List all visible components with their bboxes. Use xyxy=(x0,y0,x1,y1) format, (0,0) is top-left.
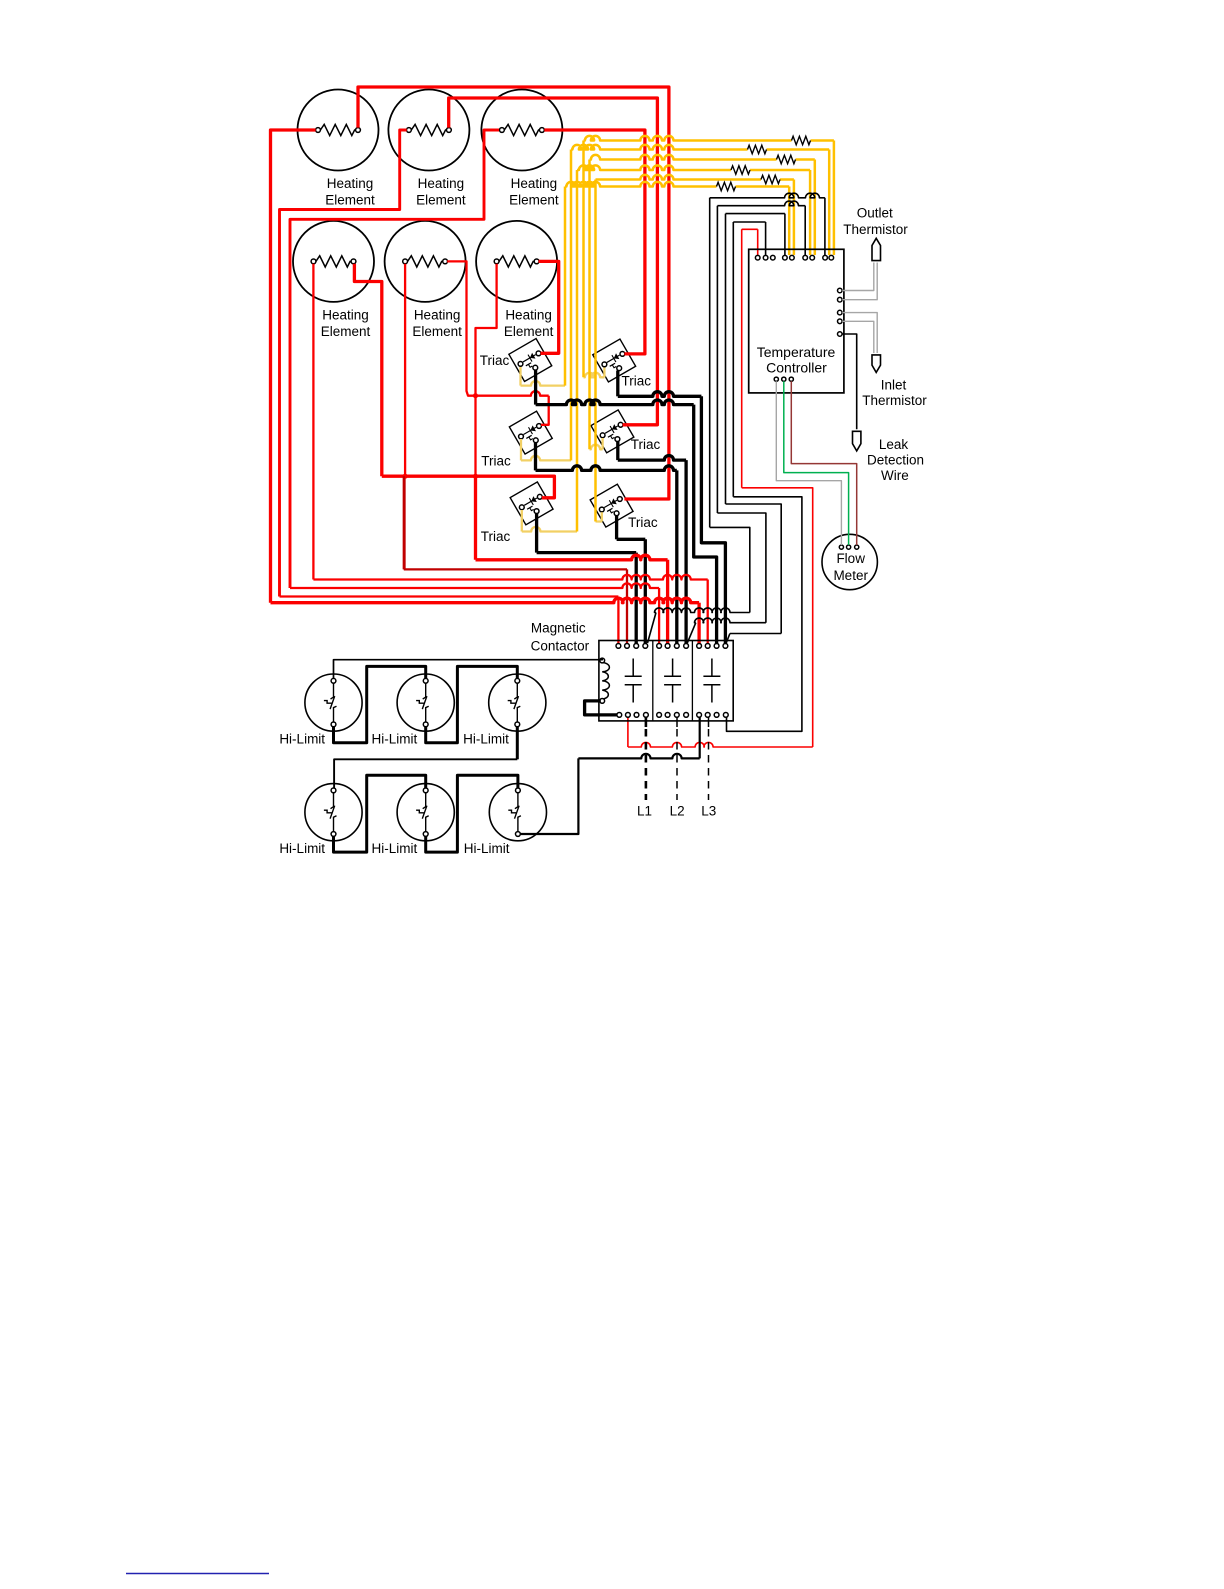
svg-text:Temperature: Temperature xyxy=(757,344,836,360)
svg-text:Element: Element xyxy=(504,324,554,339)
flow meter xyxy=(822,534,877,589)
svg-text:Meter: Meter xyxy=(833,568,868,583)
label Temperature Controller xyxy=(757,344,836,375)
yellow riser T1 gate xyxy=(519,367,521,386)
wire junction x=475.5 y=395.7 right to x=548.7 down to triac T3 main xyxy=(476,391,549,396)
footer rule xyxy=(126,1573,269,1575)
svg-text:Inlet: Inlet xyxy=(881,377,907,392)
contactor bottom terminals xyxy=(617,713,622,718)
contactor coil xyxy=(602,663,609,700)
yellow riser T6 gate xyxy=(601,512,603,521)
yellow bus B: riser x=571.0 to controller drop x=829.2 xyxy=(571,145,748,150)
svg-text:L1: L1 xyxy=(637,804,652,819)
svg-text:L2: L2 xyxy=(670,804,685,819)
wire HE5 right terminal right-down to junction x=475.5 y=395.7 xyxy=(447,261,475,395)
black wire triac T1 MT1 down-right to x=693.7 down to y=559.7 right to contactor terminal 11 xyxy=(534,370,537,405)
black wire triac T3 MT1 down-right to contactor terminal 7 xyxy=(534,443,537,471)
svg-text:Thermistor: Thermistor xyxy=(862,393,927,408)
heating element HE3 xyxy=(481,90,562,171)
dashed line L2 xyxy=(676,718,678,728)
svg-text:Hi-Limit: Hi-Limit xyxy=(279,731,325,746)
junction node feeder/HE6 xyxy=(473,474,478,479)
svg-text:Heating: Heating xyxy=(327,176,374,191)
sense wire controller t6: H2 y=205.7 elbow x=717.4 down, right to y=622.7 jog to contactor t8 xyxy=(717,201,805,206)
resistor on yellow bus B xyxy=(748,145,767,153)
label Leak Detection Wire xyxy=(867,437,924,483)
controller top terminals xyxy=(755,255,760,260)
resistor on yellow bus E xyxy=(761,175,780,183)
sense wire controller t8: H1 y=197.8 left elbow x=709.7 down, right to y=612.5 jog to contactor t4 xyxy=(710,193,825,198)
svg-text:Element: Element xyxy=(412,324,462,339)
svg-text:Wire: Wire xyxy=(881,468,909,483)
sense wire controller t2: H4 y=222 elbow x=733.3 down, right down to contactor bottom terminal 12 xyxy=(733,221,765,223)
hi-limit switch HL1 xyxy=(305,674,362,731)
svg-text:Triac: Triac xyxy=(622,374,652,389)
svg-text:Hi-Limit: Hi-Limit xyxy=(372,731,418,746)
triac T3 xyxy=(509,411,552,454)
magnetic contactor box xyxy=(599,641,733,721)
yellow riser T5 gate xyxy=(521,510,523,532)
junction node x=475.5 y=395.7 xyxy=(473,393,478,398)
heating element HE5 xyxy=(385,221,466,302)
wire HL5 bottom to HL6 top jumper xyxy=(426,775,518,852)
yellow bus D: riser x=577.0 to controller drop x=810.1 xyxy=(577,165,731,170)
leak detection wire symbol xyxy=(853,431,861,451)
svg-text:Hi-Limit: Hi-Limit xyxy=(464,841,510,856)
wire controller terminal to leak detection wire xyxy=(842,334,857,429)
wire HE2 left terminal left-down-left to x=279.5 down to red bus D xyxy=(280,130,407,597)
heating element HE2 xyxy=(388,90,469,171)
svg-text:Element: Element xyxy=(325,192,375,207)
hi-limit switch HL6 xyxy=(489,784,546,841)
red bus D y=596.5 from x=279.5 to contactor terminal 1 xyxy=(280,595,619,597)
resistor on yellow bus D xyxy=(731,166,750,174)
svg-text:Hi-Limit: Hi-Limit xyxy=(279,841,325,856)
yellow bus C: riser x=589.5 to controller drop x=814.8 xyxy=(590,155,777,160)
label Flow Meter xyxy=(833,551,868,583)
wire HL3 bottom down-left to HL4 top xyxy=(516,727,519,760)
yellow bus D drop to controller xyxy=(809,170,812,255)
svg-text:Heating: Heating xyxy=(414,308,461,323)
junction node feeder/HE5 xyxy=(403,474,408,479)
wire HE1 left terminal to x=270.5 down to red bus E xyxy=(271,130,316,603)
red bus C y=588 from x=290 to contactor terminal 5 xyxy=(290,583,659,588)
svg-text:Triac: Triac xyxy=(480,353,510,368)
triac T4 xyxy=(591,410,634,453)
yellow bus A drop to controller xyxy=(833,141,836,256)
svg-text:Detection: Detection xyxy=(867,452,924,467)
svg-text:Triac: Triac xyxy=(481,454,511,469)
label HE5 Heating Element xyxy=(412,308,462,339)
wire HE6 right terminal right to x=558.7 down to triac T1 main xyxy=(539,261,559,353)
temperature controller box xyxy=(749,249,844,393)
label HE1 Heating Element xyxy=(325,176,375,207)
svg-text:Hi-Limit: Hi-Limit xyxy=(372,841,418,856)
contactor main contacts xyxy=(625,659,642,703)
wire HE5 left terminal down to junction on feeder xyxy=(404,264,406,476)
resistor on yellow bus A xyxy=(792,136,811,144)
triac T1 xyxy=(509,339,552,382)
wire HL2 bottom to HL3 top jumper xyxy=(426,666,518,742)
svg-text:Heating: Heating xyxy=(322,308,369,323)
wire controller to flow meter gray xyxy=(776,381,841,545)
svg-text:Flow: Flow xyxy=(836,551,865,566)
red bus E y=602.7 from x=270.5 to contactor terminal 9 xyxy=(271,598,700,603)
wire controller to flow meter dark red xyxy=(791,381,856,545)
svg-text:Triac: Triac xyxy=(628,515,658,530)
heating element HE6 xyxy=(476,221,557,302)
wire HE6 left terminal down-left-down to junction x=475.5 xyxy=(476,264,497,476)
svg-text:Controller: Controller xyxy=(766,360,827,376)
controller right terminals xyxy=(838,288,843,293)
wire HL6 bottom right-up to contactor bottom terminal 9 xyxy=(520,758,578,834)
dark red bus B y=569.4 from x=403.8 to contactor terminal 2 xyxy=(403,476,405,569)
svg-text:Magnetic: Magnetic xyxy=(531,621,586,636)
wire HE2 right terminal up to y=98 to x=657.4 down to triac T4 main xyxy=(449,98,658,425)
label HE2 Heating Element xyxy=(416,176,466,207)
label HE4 Heating Element xyxy=(321,308,371,339)
wire HE4 left terminal down to red bus F xyxy=(312,264,314,580)
outlet thermistor symbol xyxy=(872,238,881,260)
dashed line L3 xyxy=(708,718,710,728)
black wire triac T6 MT1 down-right to contactor terminal 4 xyxy=(615,516,618,540)
red bus A y=559.8 from x=475.5 to contactor terminal 6 xyxy=(474,476,477,560)
svg-text:Element: Element xyxy=(509,192,559,207)
triac T2 xyxy=(593,339,636,382)
svg-text:Leak: Leak xyxy=(879,437,909,452)
hi-limit switch HL5 xyxy=(397,784,454,841)
hi-limit switch HL4 xyxy=(305,784,362,841)
wire HL4 bottom to HL5 top jumper xyxy=(334,775,426,852)
heating element HE4 xyxy=(293,221,374,302)
svg-text:Heating: Heating xyxy=(418,176,465,191)
yellow riser T4 gate xyxy=(601,438,603,449)
wire HE3 right terminal right y=130 to x=644.9 down to triac T2 main xyxy=(544,130,645,354)
svg-text:Hi-Limit: Hi-Limit xyxy=(463,731,509,746)
wire HE3 left terminal left-down-left to x=290 down to red bus C xyxy=(290,130,499,588)
black wire triac T4 MT1 down-right to contactor terminal 8 xyxy=(616,441,619,460)
label Inlet Thermistor xyxy=(862,377,927,408)
svg-text:Contactor: Contactor xyxy=(531,639,590,654)
black wire triac T2 MT1 down-right to x=701.4 down to y=542.8 right to contactor terminal 12 xyxy=(616,371,619,397)
resistor on yellow bus C xyxy=(777,155,796,163)
triac T5 xyxy=(510,482,553,525)
yellow bus F drop to controller xyxy=(788,187,791,256)
label Outlet Thermistor xyxy=(843,205,908,237)
wire controller to flow meter green xyxy=(784,381,849,545)
wire feeder y=476.2 from x=381.8 to x=554.4 down to triac T5 main xyxy=(382,476,555,498)
yellow bus E: riser x=595.5 to controller drop x=793.9 xyxy=(596,175,762,180)
yellow bus B drop to controller xyxy=(828,150,831,256)
svg-text:Heating: Heating xyxy=(505,308,552,323)
wire controller to inlet thermistor xyxy=(842,313,877,353)
yellow bus F: riser x=565.0 to controller drop x=789.2 xyxy=(565,182,717,187)
svg-text:Thermistor: Thermistor xyxy=(843,222,908,237)
sense wire controller t4: H3 y=213.6 elbow x=725.5 down, right to y=633.5 jog to contactor t12 xyxy=(726,213,785,215)
wire junction down to dark red bus B xyxy=(403,476,405,569)
resistor on yellow bus F xyxy=(717,182,736,190)
inlet thermistor symbol xyxy=(872,355,881,373)
label HE3 Heating Element xyxy=(509,176,559,207)
wire controller to outlet thermistor xyxy=(842,263,874,291)
yellow riser T3 gate xyxy=(520,439,522,460)
hi-limit switch HL2 xyxy=(397,674,454,731)
yellow riser T2 gate xyxy=(603,368,605,378)
red bus F y=579.5 from x=313.4 to contactor terminal 10 xyxy=(313,575,707,580)
triac T6 xyxy=(590,484,633,527)
svg-text:Triac: Triac xyxy=(481,529,511,544)
sense wire controller t1 red: y=229.3 elbow x=741.7 down, right at y=487.8 to x=812.7 down to y=747 left to contactor bottom terminal 2 xyxy=(742,228,758,230)
label Magnetic Contactor xyxy=(531,621,590,654)
wire HL1 bottom to HL2 top jumper xyxy=(334,666,426,742)
wire HE1 right terminal to top bus y=87 to x=668.9 down to triac T6 main xyxy=(358,87,669,499)
svg-text:Outlet: Outlet xyxy=(857,205,893,220)
wire hi-limit row1 feed to contactor coil top xyxy=(334,658,603,678)
svg-text:Heating: Heating xyxy=(511,176,558,191)
svg-text:Element: Element xyxy=(321,324,371,339)
yellow bus E drop to controller xyxy=(793,180,796,256)
dashed line L1 xyxy=(645,718,648,728)
contactor coil return wire to bottom terminal 1 xyxy=(585,701,617,715)
yellow bus C drop to controller xyxy=(814,160,817,256)
wire HE4 right terminal down-right-down to junction on y=476.2 feeder xyxy=(354,264,381,476)
label HE6 Heating Element xyxy=(504,308,554,339)
hi-limit switch HL3 xyxy=(489,674,546,731)
svg-text:Triac: Triac xyxy=(631,437,661,452)
controller bottom terminals xyxy=(774,377,778,381)
contactor top terminals xyxy=(616,644,621,649)
heating element HE1 xyxy=(298,90,379,171)
black wire triac T5 MT1 down-right to contactor terminal 3 xyxy=(535,513,538,552)
yellow bus A: triac T2 gate riser x=583.5 to controller terminal 9R xyxy=(584,136,792,141)
svg-text:L3: L3 xyxy=(701,804,716,819)
contactor section dividers xyxy=(653,641,693,721)
svg-text:Element: Element xyxy=(416,192,466,207)
